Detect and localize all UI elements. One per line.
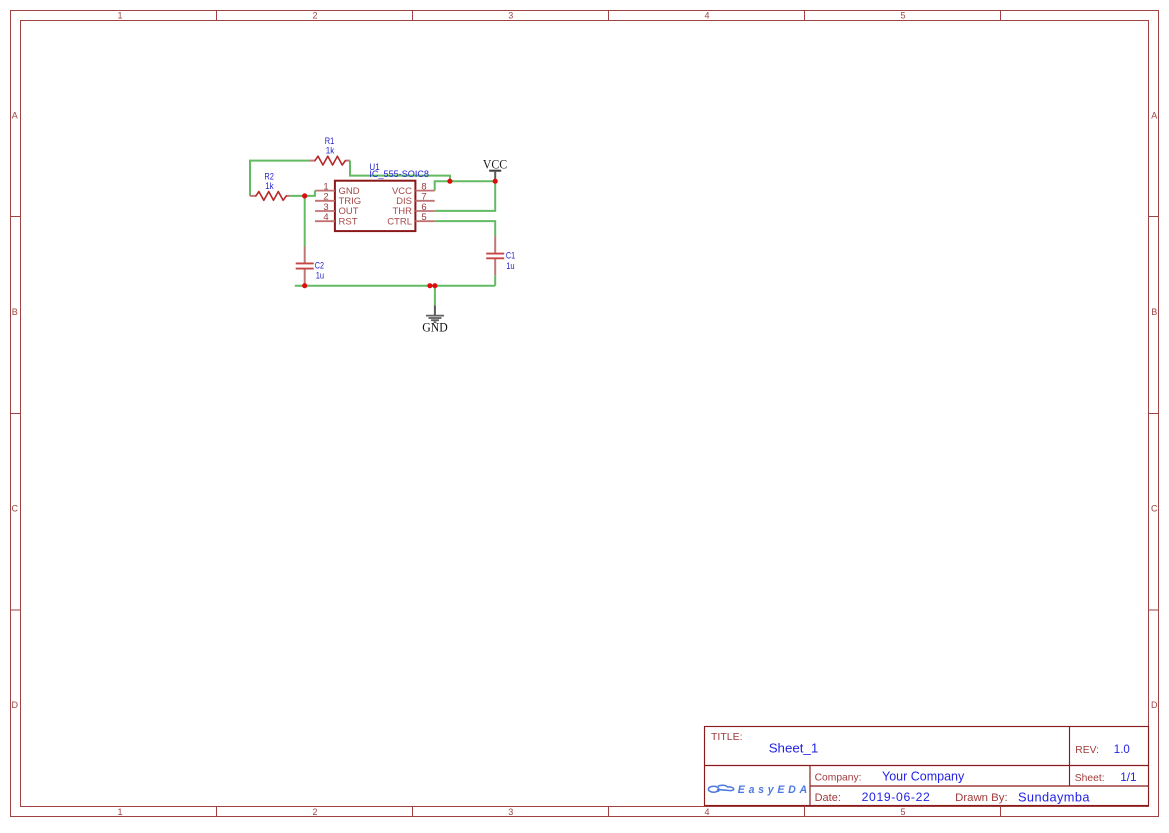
svg-text:TITLE:: TITLE: xyxy=(711,731,743,743)
svg-text:1k: 1k xyxy=(265,181,274,192)
svg-text:GND: GND xyxy=(422,320,448,334)
junction node gnd-left xyxy=(427,283,432,288)
svg-text:EasyEDA: EasyEDA xyxy=(738,784,811,796)
svg-text:D: D xyxy=(12,700,19,710)
svg-text:4: 4 xyxy=(323,212,328,223)
svg-text:B: B xyxy=(12,307,18,317)
pin 2 TRIG xyxy=(315,192,361,207)
label R1 value 1k xyxy=(325,136,335,157)
IC U1 555 timer body xyxy=(335,181,416,231)
pin 7 DIS xyxy=(396,192,435,207)
svg-text:1u: 1u xyxy=(316,271,324,282)
pin 8 VCC xyxy=(392,182,435,197)
svg-text:5: 5 xyxy=(421,212,426,223)
wire R2-left to R1-left xyxy=(250,161,310,196)
svg-text:Date:: Date: xyxy=(815,792,841,804)
svg-text:1: 1 xyxy=(117,11,122,21)
svg-text:C1: C1 xyxy=(506,250,515,261)
svg-text:CTRL: CTRL xyxy=(387,216,412,227)
label U1 xyxy=(369,162,429,180)
svg-text:1.0: 1.0 xyxy=(1114,744,1130,756)
svg-text:REV:: REV: xyxy=(1075,745,1099,756)
wire C1 bottom xyxy=(494,275,496,286)
junction node A xyxy=(302,193,307,198)
svg-text:2019-06-22: 2019-06-22 xyxy=(862,790,931,804)
svg-text:Sheet_1: Sheet_1 xyxy=(769,741,819,756)
svg-text:1/1: 1/1 xyxy=(1120,770,1136,784)
pin 5 CTRL xyxy=(387,212,435,227)
svg-text:5: 5 xyxy=(900,807,905,817)
svg-text:4: 4 xyxy=(704,11,709,21)
junction node gnd-right xyxy=(432,283,437,288)
capacitor C1 xyxy=(486,236,504,275)
wire pin5 CTRL to C1 top xyxy=(435,221,496,236)
svg-text:4: 4 xyxy=(704,807,709,817)
wire R1-right to VCC rail xyxy=(350,161,450,182)
title block xyxy=(705,727,1149,806)
svg-text:C: C xyxy=(1151,504,1158,514)
svg-text:Company:: Company: xyxy=(815,773,862,784)
pin 3 OUT xyxy=(315,202,359,217)
ground symbol GND xyxy=(422,306,448,335)
svg-text:2: 2 xyxy=(312,807,317,817)
svg-text:1: 1 xyxy=(117,807,122,817)
wire node A down to C2 xyxy=(304,196,306,247)
EasyEDA logo xyxy=(708,784,810,796)
svg-text:D: D xyxy=(1151,700,1158,710)
svg-text:Sundaymba: Sundaymba xyxy=(1018,789,1090,804)
label R2 value 1k xyxy=(264,172,274,193)
svg-text:RST: RST xyxy=(339,216,358,227)
svg-text:C: C xyxy=(12,504,19,514)
svg-text:Sheet:: Sheet: xyxy=(1075,773,1105,784)
resistor R1 xyxy=(310,156,350,165)
label C1 value 1u xyxy=(506,250,515,271)
wire ground rail xyxy=(295,285,495,287)
svg-text:5: 5 xyxy=(900,11,905,21)
pin 1 GND xyxy=(315,182,360,197)
junction node B xyxy=(447,179,452,184)
svg-text:3: 3 xyxy=(508,807,513,817)
wire VCC rail to pin8 xyxy=(435,181,496,190)
svg-text:3: 3 xyxy=(508,11,513,21)
wire VCC down to pin6 THR xyxy=(435,181,496,211)
junction node VCC xyxy=(493,179,498,184)
svg-text:A: A xyxy=(1151,111,1157,121)
label C2 value 1u xyxy=(315,260,324,281)
svg-text:IC_555-SOIC8: IC_555-SOIC8 xyxy=(369,169,429,180)
power flag VCC xyxy=(483,158,507,182)
svg-text:A: A xyxy=(12,111,18,121)
junction node C2-gnd xyxy=(302,283,307,288)
svg-text:B: B xyxy=(1151,307,1157,317)
svg-text:Your Company: Your Company xyxy=(882,770,965,784)
wire R2-right to pin1 with junction A xyxy=(290,191,315,196)
svg-text:2: 2 xyxy=(312,11,317,21)
svg-text:1u: 1u xyxy=(506,261,514,272)
resistor R2 xyxy=(250,192,290,201)
pin 4 RST xyxy=(315,212,358,227)
svg-text:1k: 1k xyxy=(326,145,335,156)
pin 6 THR xyxy=(392,202,434,217)
capacitor C2 xyxy=(296,247,314,285)
svg-text:VCC: VCC xyxy=(483,158,507,172)
wire GND stub xyxy=(434,286,436,306)
svg-text:Drawn By:: Drawn By: xyxy=(955,792,1008,804)
